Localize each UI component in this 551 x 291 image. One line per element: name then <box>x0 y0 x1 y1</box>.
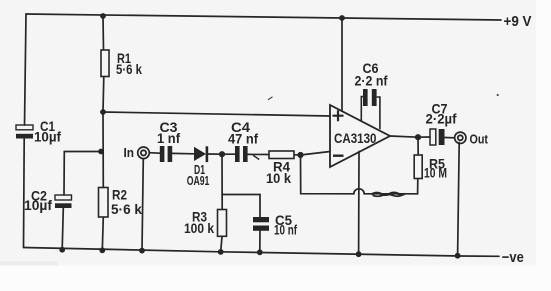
op-amp U1 CA3130 <box>330 105 390 167</box>
node: top rail / R1 <box>100 13 106 19</box>
wire: R4 to node <box>294 154 301 156</box>
wire: R1 top lead <box>102 16 105 50</box>
stray speck right side <box>497 94 499 96</box>
wire: R1 bottom lead to node <box>102 77 105 113</box>
svg-text:5·6 k: 5·6 k <box>111 201 142 217</box>
resistor R2 <box>99 187 143 218</box>
svg-text:1 nf: 1 nf <box>157 130 180 146</box>
wire: Out jack ground <box>458 143 460 256</box>
wire: op-amp V+ from rail <box>341 18 343 111</box>
wire: left vertical (top rail to C1) <box>25 14 27 125</box>
output jack Out <box>455 132 489 147</box>
node: bottom rail / R3 <box>218 249 224 255</box>
node: C2 tap <box>98 149 104 155</box>
wire: -ve bottom rail <box>24 248 500 257</box>
wire: left vertical (C1 to bottom rail) <box>23 139 26 248</box>
capacitor C2 (electrolytic) <box>24 188 72 214</box>
wire: C3 to D1 <box>172 152 194 154</box>
capacitor C7 (electrolytic) <box>426 101 457 146</box>
resistor R4 <box>266 151 294 186</box>
wire: R5 top lead to output node <box>417 137 419 155</box>
node: D1/C4/R3 <box>219 151 225 157</box>
wire: C7 to Out jack <box>445 137 455 139</box>
wire: feedback R4 node down, along, up to R5 <box>301 155 418 194</box>
scribble on feedback wire <box>372 193 405 195</box>
wire: node to op-amp - input <box>301 152 331 156</box>
svg-text:CA3130: CA3130 <box>334 130 377 146</box>
stray mark near C4/R4 <box>253 155 259 159</box>
svg-text:In: In <box>124 145 135 160</box>
stray tick above C4 <box>268 97 273 100</box>
svg-text:10µf: 10µf <box>34 129 61 145</box>
wire: branch to C5 <box>222 195 260 218</box>
wire: node to C4 <box>222 153 235 155</box>
wire: In jack to C3 <box>149 152 160 155</box>
resistor R1 <box>101 50 142 77</box>
node: bottom rail / R2 <box>99 247 105 253</box>
capacitor C5 <box>253 212 297 238</box>
svg-text:10 k: 10 k <box>266 170 291 186</box>
node: bottom rail / C5 <box>257 249 263 255</box>
wire: C2 tap from node line <box>64 152 101 196</box>
node: R4/-input/feedback <box>297 152 303 158</box>
node: R1/R2/+input <box>100 109 106 115</box>
svg-text:+9 V: +9 V <box>504 13 532 30</box>
wire: C4 to R4 <box>248 153 269 155</box>
svg-text:10µf: 10µf <box>24 197 52 213</box>
wire: node down to R3 <box>221 154 223 209</box>
node: bottom rail / Out ground <box>455 253 461 259</box>
svg-text:OA91: OA91 <box>187 174 210 188</box>
wire: D1 to node <box>208 153 222 155</box>
resistor R3 <box>184 209 227 237</box>
faint smudge bottom-left <box>0 262 58 266</box>
svg-text:2·2µf: 2·2µf <box>426 111 457 127</box>
wire: op-amp output to node <box>390 136 430 137</box>
svg-text:10 M: 10 M <box>424 165 447 181</box>
node: output/C7/R5 <box>415 134 421 140</box>
node: bottom rail / C2 <box>59 247 65 253</box>
capacitor C3 <box>157 119 180 162</box>
node: bottom rail / In ground <box>139 248 145 254</box>
svg-text:5·6 k: 5·6 k <box>116 61 142 77</box>
diode D1 <box>187 146 210 188</box>
wire: +9V top rail <box>26 14 501 20</box>
wire: node to op-amp + input <box>103 112 330 116</box>
resistor R5 <box>414 155 447 181</box>
svg-text:10 nf: 10 nf <box>274 222 297 238</box>
svg-text:Out: Out <box>470 132 489 147</box>
wire: R2 bottom lead <box>102 217 103 250</box>
svg-text:47 nf: 47 nf <box>228 131 258 147</box>
wire: C5 bottom lead <box>259 231 261 253</box>
capacitor C1 (electrolytic) <box>16 118 61 145</box>
svg-text:100 k: 100 k <box>184 220 214 236</box>
svg-text:2·2 nf: 2·2 nf <box>355 73 388 89</box>
capacitor C4 <box>228 119 258 162</box>
wire: node down to R2 <box>102 112 104 188</box>
svg-text:−ve: −ve <box>502 249 524 266</box>
node: top rail / op-amp V+ <box>339 15 345 21</box>
node: bottom rail / op-amp V- <box>356 251 362 257</box>
wire: C2 bottom lead <box>62 208 63 250</box>
wire: R3 bottom lead <box>221 236 222 252</box>
wire: In jack ground <box>142 159 143 251</box>
input jack In <box>124 145 150 160</box>
wire: op-amp V- to bottom rail <box>358 152 360 255</box>
capacitor C6 <box>355 60 388 129</box>
